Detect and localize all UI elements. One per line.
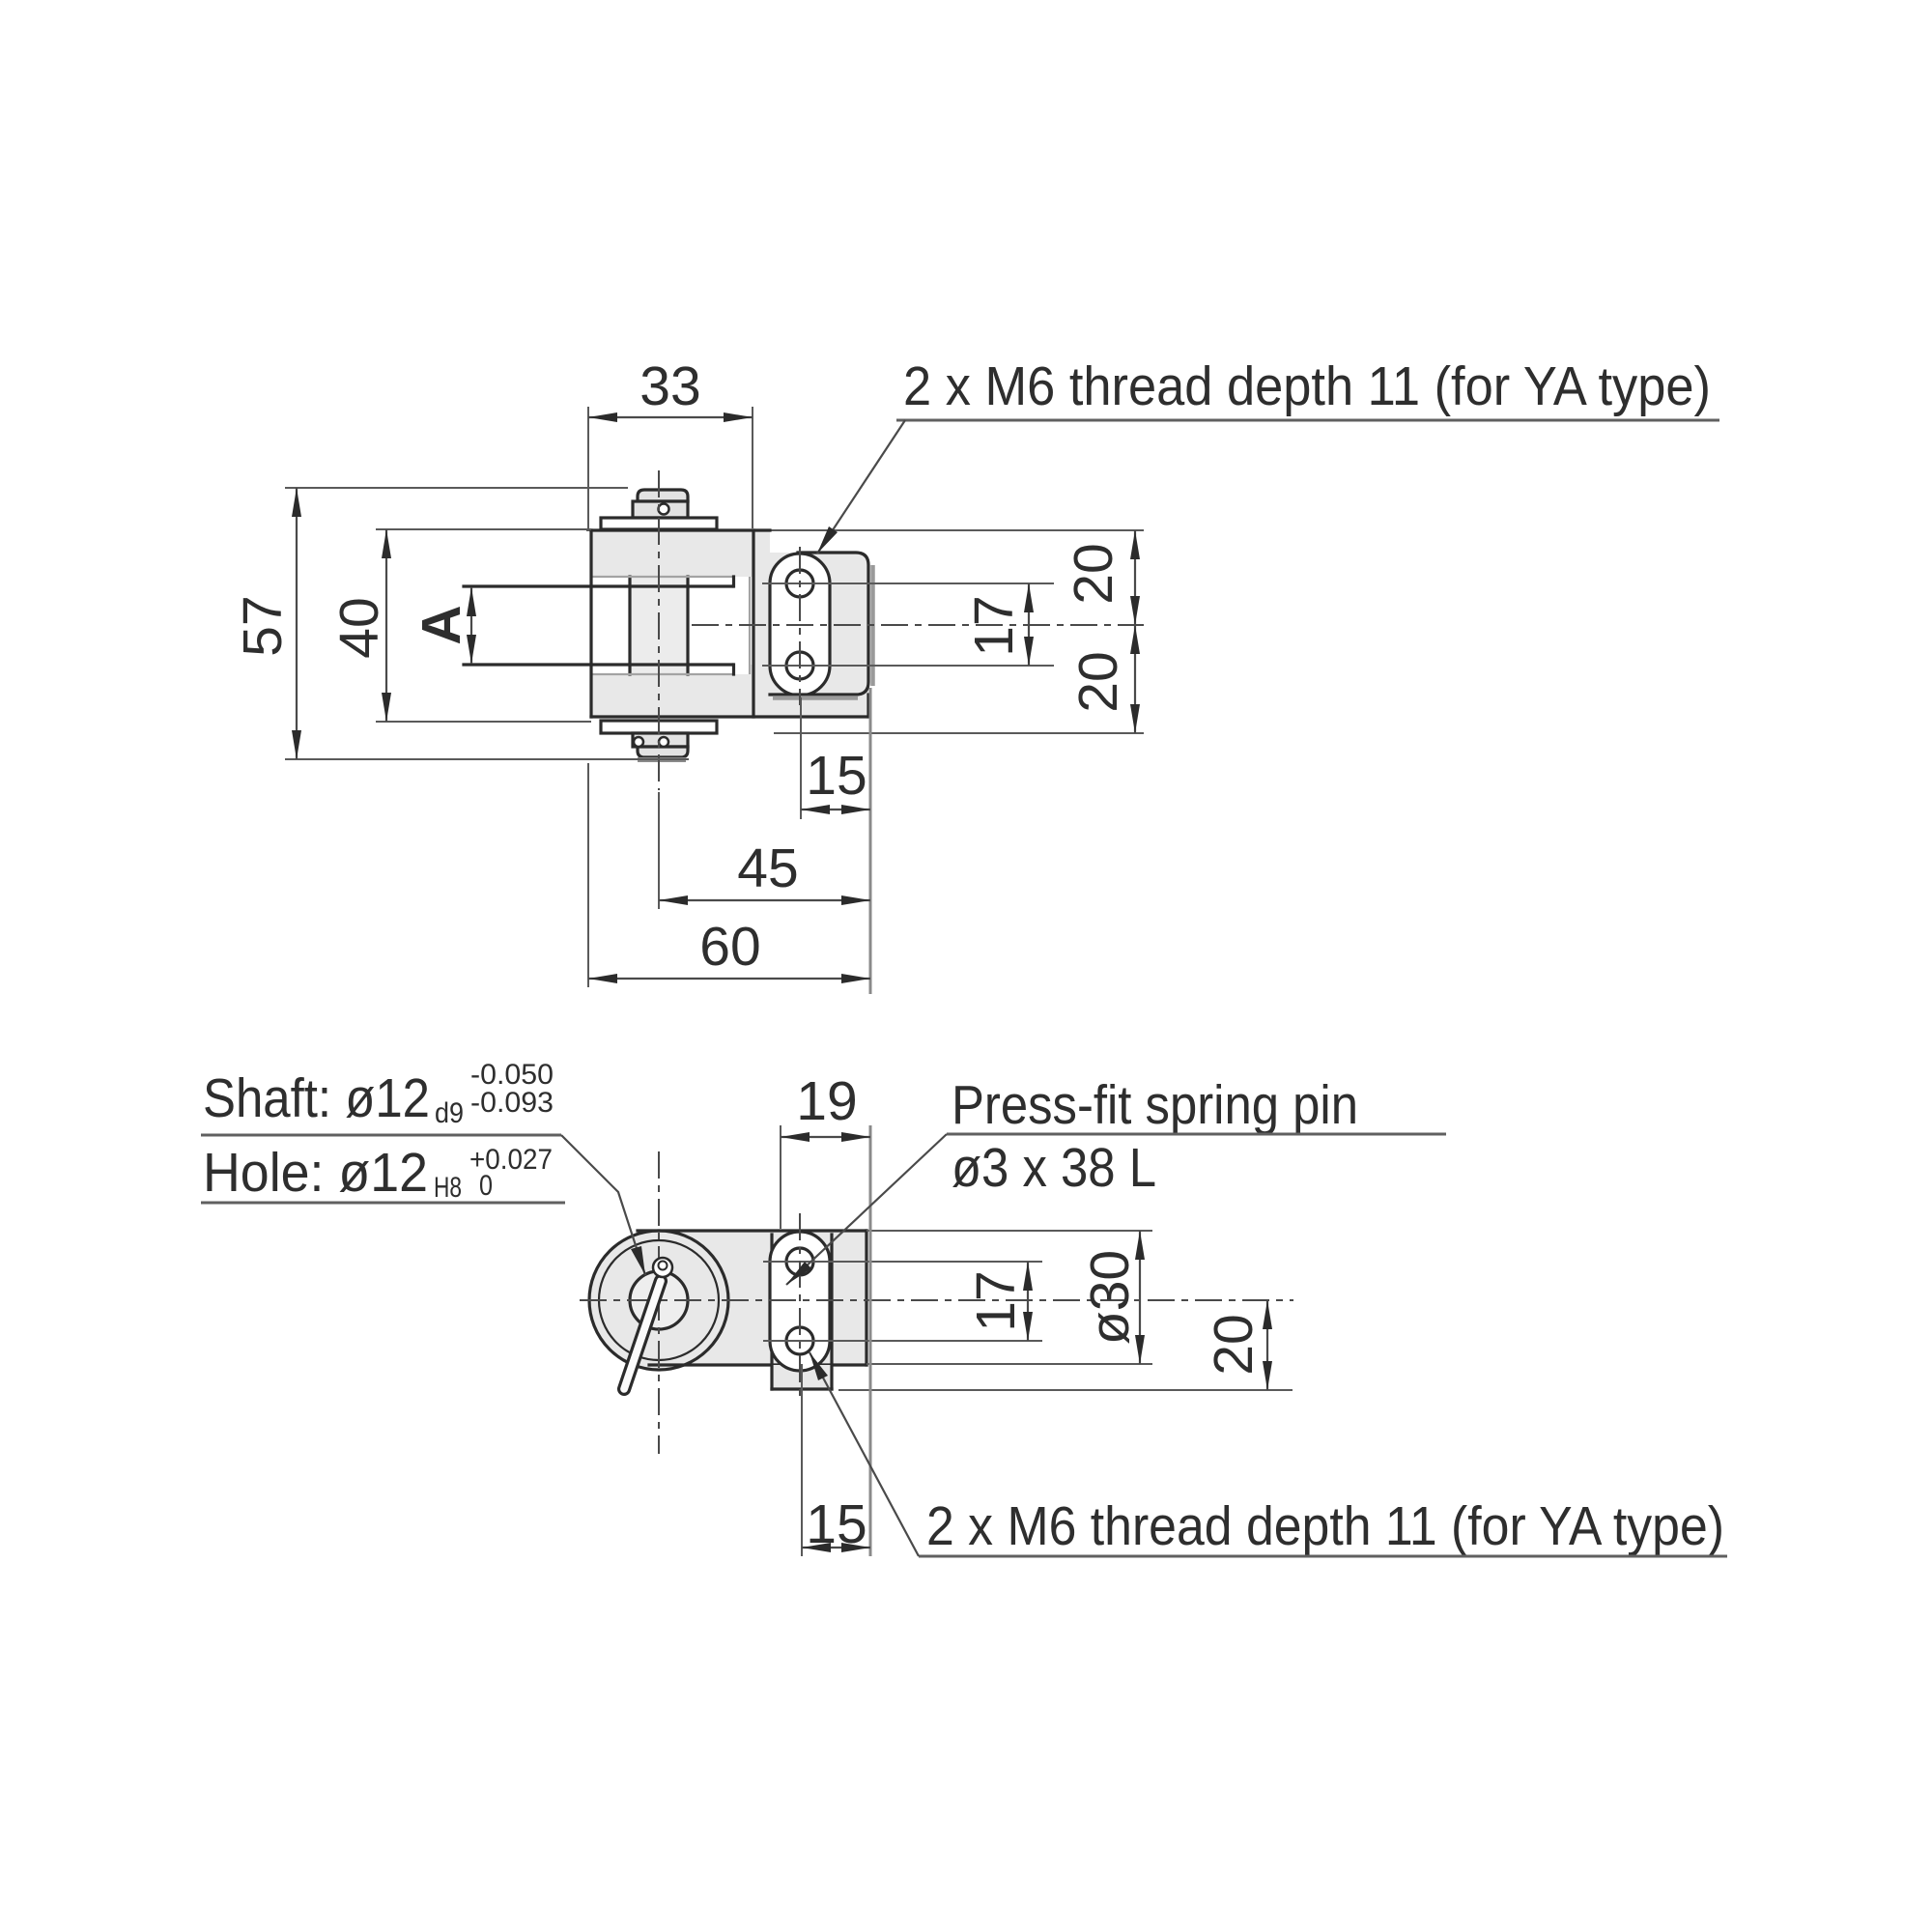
pin bottom washer (601, 721, 717, 733)
slot chamfer bottom (591, 673, 735, 675)
svg-text:17: 17 (963, 595, 1025, 656)
dim 45 (658, 792, 660, 909)
arm band fill (659, 1231, 867, 1365)
clevis fork bottom arm fill (591, 674, 868, 717)
hole center ext lines (763, 1261, 1042, 1263)
svg-text:15: 15 (806, 745, 867, 807)
dim A (470, 587, 472, 664)
boss inner circle (599, 1240, 719, 1360)
horizontal centerline (580, 1299, 1293, 1301)
knuckle block fill (770, 553, 868, 695)
band top edge (638, 1229, 867, 1232)
vertical centerline (658, 1151, 660, 1454)
bracket base sides (770, 1235, 773, 1389)
dim 33 (587, 407, 589, 528)
dim 20/20 top (774, 732, 1144, 734)
svg-text:ø3 x 38 L: ø3 x 38 L (952, 1137, 1156, 1199)
shaft hole ø12 (630, 1271, 688, 1329)
svg-text:20: 20 (1067, 651, 1129, 712)
M6 hole top (bottom view) (786, 1248, 813, 1275)
pin top head base (633, 501, 688, 518)
svg-text:20: 20 (1203, 1314, 1264, 1375)
fork web strip fill (753, 530, 770, 695)
dim 15 top (800, 697, 802, 819)
svg-text:Shaft: ø12: Shaft: ø12 (203, 1067, 430, 1129)
svg-text:d9: d9 (435, 1097, 464, 1129)
fork left edge (589, 530, 592, 717)
block right shadow (870, 565, 875, 686)
hole centerlines horizontal (762, 582, 1054, 584)
band bottom edge (649, 1363, 867, 1366)
svg-text:57: 57 (232, 595, 294, 656)
M6 hole bottom (bottom view) (786, 1327, 813, 1354)
fork right edge (752, 530, 754, 717)
dim 40 (376, 528, 591, 530)
stadium boss outline (770, 554, 830, 696)
stadium boss outline bottom (770, 1232, 830, 1371)
svg-text:33: 33 (639, 355, 700, 417)
pin shaft seen through slot (630, 577, 688, 674)
pin top washer (601, 518, 717, 529)
spring pin (617, 1274, 668, 1396)
dim 60 (587, 763, 589, 987)
svg-text:H8: H8 (434, 1172, 462, 1204)
svg-text:2 x M6 thread depth 11 (for YA: 2 x M6 thread depth 11 (for YA type) (903, 355, 1711, 417)
rod / slot bottom edge (464, 663, 732, 666)
svg-text:15: 15 (806, 1493, 867, 1555)
svg-text:19: 19 (796, 1070, 857, 1132)
pin bottom head base (633, 733, 688, 747)
pin top head cap (638, 490, 688, 501)
dim 19 (780, 1125, 781, 1229)
dim 17 top (1028, 583, 1030, 666)
svg-text:2 x M6 thread depth 11 (for YA: 2 x M6 thread depth 11 (for YA type) (926, 1495, 1724, 1557)
slot white (591, 577, 750, 674)
top arm top edge (586, 529, 1144, 531)
svg-text:60: 60 (699, 916, 760, 978)
svg-text:-0.093: -0.093 (470, 1087, 554, 1119)
dim 20 bottom (1266, 1300, 1268, 1390)
dim dia30 (1139, 1231, 1141, 1364)
pin bottom head cap (638, 747, 688, 757)
rod / slot top edge (464, 584, 732, 587)
slot end face (749, 577, 751, 674)
svg-text:45: 45 (737, 838, 798, 899)
svg-text:A: A (411, 605, 472, 644)
dim 57 (285, 487, 628, 489)
svg-text:17: 17 (965, 1270, 1027, 1331)
svg-text:Hole: ø12: Hole: ø12 (203, 1142, 428, 1204)
band ext lines for dia30 (867, 1230, 1152, 1232)
bracket base fill (772, 1365, 832, 1389)
svg-text:20: 20 (1063, 543, 1124, 604)
dim 17 bottom (1027, 1262, 1029, 1341)
clevis fork top arm fill (591, 530, 753, 577)
hole centerline vertical chain (799, 547, 801, 705)
shaft leader (561, 1135, 645, 1275)
svg-text:Press-fit spring pin: Press-fit spring pin (952, 1074, 1358, 1136)
M6 hole bottom (786, 652, 813, 679)
dim 15 bottom (801, 1364, 803, 1556)
arm right edge below block (867, 695, 869, 717)
slot chamfer top (591, 576, 735, 578)
svg-text:40: 40 (328, 597, 390, 658)
boss ring fill (589, 1231, 728, 1370)
base bottom ext (838, 1389, 1293, 1391)
knuckle block top edge (770, 553, 868, 695)
pin vertical centerline (658, 470, 660, 790)
part horizontal centerline (692, 624, 1144, 626)
svg-text:ø30: ø30 (1079, 1250, 1141, 1345)
band right edge (865, 1231, 867, 1365)
vertical chain through holes (799, 1213, 801, 1403)
M6 hole top (786, 570, 813, 597)
pin end detail (653, 1258, 672, 1277)
bottom arm bottom edge (591, 715, 868, 718)
svg-text:0: 0 (479, 1170, 493, 1202)
